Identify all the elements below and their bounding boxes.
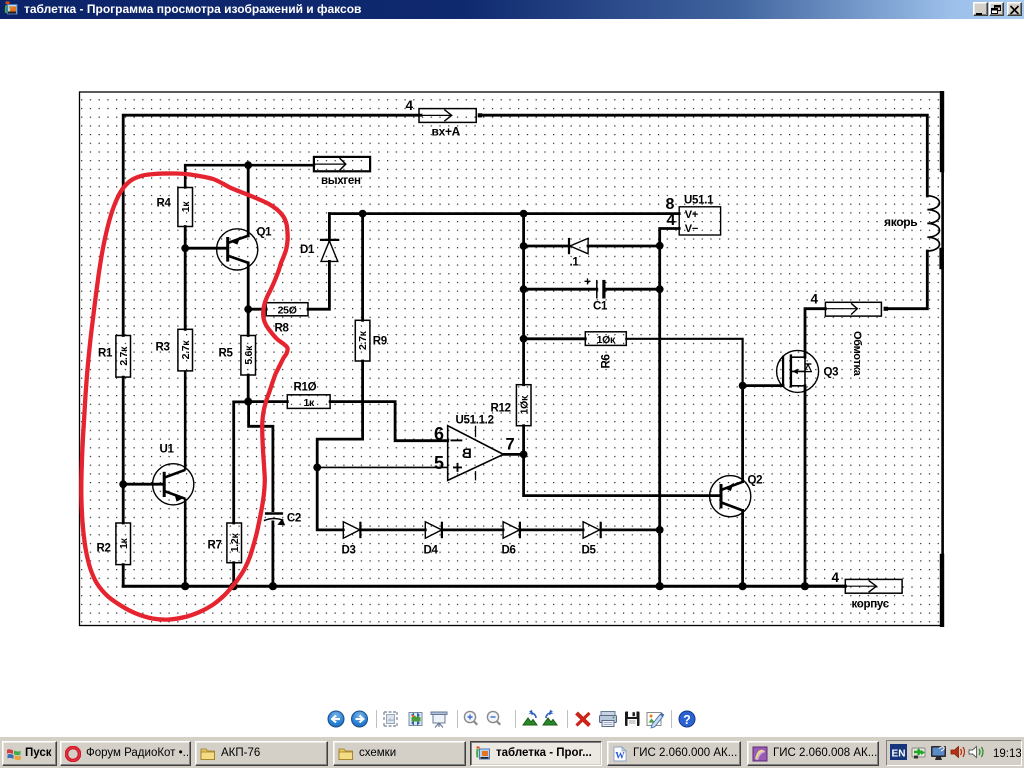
svg-text:R12: R12: [491, 403, 511, 415]
svg-text:D1: D1: [300, 244, 315, 256]
viewer toolbar: [0, 705, 1024, 736]
resistor R12: [491, 385, 532, 426]
transistor Q2: [710, 475, 763, 517]
resistor R8: [266, 303, 308, 335]
svg-text:вх+А: вх+А: [432, 125, 461, 139]
wire op-amp out to R12 node: [503, 453, 523, 456]
svg-text:U51.1.2: U51.1.2: [456, 415, 494, 427]
svg-text:R2: R2: [97, 543, 111, 555]
wire mid rail: [329, 212, 679, 215]
wire R12 top: [522, 339, 525, 385]
junction Q3 gate / Q2 emitter / R6 line: [739, 382, 747, 390]
svg-text:R3: R3: [156, 342, 170, 354]
svg-text:D6: D6: [502, 545, 516, 557]
junction diode .1 right node: [656, 242, 664, 250]
svg-text:4: 4: [667, 212, 676, 229]
wire R1 to R2: [122, 377, 125, 523]
wire rail to корпус: [805, 585, 845, 588]
svg-text:Q2: Q2: [748, 475, 763, 487]
svg-text:R8: R8: [275, 323, 290, 335]
svg-text:1Øк: 1Øк: [518, 395, 530, 414]
slideshow: [431, 712, 447, 728]
svg-text:W: W: [615, 752, 625, 762]
op-amp power block U51.1: [666, 195, 721, 236]
junction V- column / bottom rail: [656, 582, 664, 590]
junction C2 / bottom rail: [269, 582, 277, 590]
wire junction to R5: [247, 309, 250, 335]
svg-text:4: 4: [811, 292, 819, 307]
svg-text:R5: R5: [219, 348, 234, 360]
wire R7 to bottom rail: [232, 563, 235, 587]
junction Q2 collector / bottom rail: [739, 582, 747, 590]
junction R7 / bottom rail: [230, 582, 238, 590]
wire R9 bottom to pin5 node: [317, 361, 362, 467]
svg-text:4: 4: [406, 98, 414, 113]
resistor R9: [355, 320, 387, 361]
wire R12 bottom: [522, 426, 525, 455]
wire Q3 source to rail: [804, 386, 807, 586]
best fit: [384, 712, 397, 726]
svg-text:1к: 1к: [118, 538, 130, 550]
forward button: [352, 711, 368, 727]
zoom out: [487, 711, 500, 724]
wire node to D3: [317, 467, 343, 530]
resistor R3: [156, 329, 193, 371]
svg-text:R6: R6: [601, 354, 613, 368]
wire node to diode anode: [524, 245, 569, 248]
wire R9 top: [361, 214, 364, 321]
wire coil to обмотка connector: [888, 251, 927, 309]
diode D1: [300, 240, 339, 262]
delete: [577, 713, 590, 726]
wire R8 to D1: [308, 261, 329, 309]
wire junction to R7: [234, 402, 249, 523]
connector корпус: [832, 570, 903, 611]
wire D1 to mid rail: [328, 214, 331, 240]
wire bottom rail: [123, 585, 845, 588]
wire node to Q3 gate: [743, 384, 784, 387]
junction diode .1 left node: [520, 242, 528, 250]
rotate ccw: [523, 710, 537, 725]
diode D5: [582, 522, 601, 557]
wire node to C1: [524, 288, 597, 291]
svg-text:Обмотка: Обмотка: [851, 331, 863, 377]
svg-text:2.7к: 2.7к: [180, 340, 192, 360]
actual size: [409, 713, 422, 726]
svg-text:U1: U1: [160, 444, 175, 456]
wire R6 to Q3 gate node: [626, 339, 742, 386]
wire R5 to junction: [247, 375, 250, 402]
wire Q3 drain to обмотка: [805, 309, 825, 358]
rotate cw: [543, 710, 557, 725]
svg-text:C1: C1: [593, 301, 608, 313]
junction R5 / R10 / R7 / C2: [244, 398, 252, 406]
svg-text:R7: R7: [208, 540, 222, 552]
wire Q2 collector to rail: [741, 510, 744, 586]
junction op-amp out / R12 bottom: [520, 451, 528, 459]
svg-text:1Øк: 1Øк: [597, 334, 616, 346]
svg-text:19:13: 19:13: [993, 748, 1021, 760]
svg-text:1к: 1к: [303, 397, 315, 409]
junction Q1 emitter / выхген rail: [244, 161, 252, 169]
connector вх+А: [406, 98, 483, 139]
svg-text:EN: EN: [892, 749, 906, 760]
wire D4 to D6: [442, 529, 503, 532]
wire R2 to bottom rail: [122, 565, 125, 587]
wire R4 bottom to R3 top: [184, 227, 187, 330]
svg-text:V−: V−: [685, 223, 698, 235]
wire D3 to D4: [360, 529, 425, 532]
junction V+ column / mid rail: [520, 210, 528, 218]
svg-text:Q1: Q1: [257, 227, 273, 239]
transistor U1: [153, 371, 194, 586]
wire V- pin hook: [660, 229, 680, 246]
svg-text:?: ?: [683, 713, 691, 727]
svg-text:1к: 1к: [180, 201, 192, 213]
schematic sheet background: [80, 92, 944, 626]
resistor R4: [157, 188, 193, 227]
wire junction to C2: [249, 402, 273, 511]
junction R9 / mid rail: [359, 210, 367, 218]
resistor R6: [585, 332, 626, 369]
svg-text:выхген: выхген: [321, 175, 361, 187]
diode D4: [424, 522, 442, 557]
junction C1 left node: [520, 285, 528, 293]
edit: [647, 713, 664, 728]
svg-text:R9: R9: [373, 336, 387, 348]
title bar: [0, 0, 1024, 19]
svg-text:U51.1: U51.1: [684, 195, 714, 207]
svg-text:4: 4: [832, 570, 840, 585]
resistor R7: [208, 523, 242, 563]
inductor якорь: [927, 196, 939, 251]
wire node to Q2 base: [524, 454, 720, 495]
wire V- column down: [658, 246, 661, 587]
wire top rail: [123, 115, 421, 335]
svg-text:2.7к: 2.7к: [118, 346, 130, 366]
svg-text:R1: R1: [98, 348, 113, 360]
wire D6 to D5: [520, 529, 583, 532]
svg-text:D3: D3: [342, 545, 356, 557]
transistor Q3 (mosfet): [777, 350, 839, 392]
svg-text:B: B: [462, 446, 472, 461]
svg-text:D4: D4: [424, 545, 439, 557]
taskbar: [0, 736, 1024, 768]
svg-text:C2: C2: [287, 513, 301, 525]
wire R4 top to выхген rail: [185, 165, 314, 187]
wire V+ column: [522, 214, 525, 339]
svg-text:25Ø: 25Ø: [278, 305, 297, 317]
svg-text:5.6к: 5.6к: [243, 345, 255, 365]
svg-text:.1: .1: [570, 257, 580, 269]
svg-text:7: 7: [506, 436, 515, 454]
schematic SVG: [0, 91, 1024, 627]
wire C1 to V- column: [605, 288, 660, 291]
resistor R2: [97, 523, 131, 565]
wire node to R6: [524, 337, 586, 340]
back button: [328, 711, 344, 727]
junction pin5 node: [313, 464, 321, 472]
zoom in: [464, 711, 477, 724]
transistor Q1: [185, 227, 272, 271]
junction R6 left node / R12 top: [520, 335, 528, 343]
junction Q1 base / R4-R3: [181, 244, 189, 252]
resistor R1: [98, 336, 131, 378]
wire node to Q2 emitter: [741, 386, 744, 482]
svg-text:+: +: [584, 275, 591, 289]
svg-text:D5: D5: [582, 545, 597, 557]
svg-text:1.2к: 1.2к: [229, 533, 241, 553]
junction U1 base / R1-R2: [119, 480, 127, 488]
wire junction to R8: [248, 308, 266, 311]
svg-text:Q3: Q3: [824, 367, 839, 379]
save: [625, 712, 640, 727]
wire D5 to node: [601, 529, 660, 532]
connector выхген: [314, 157, 370, 187]
help: [679, 711, 695, 727]
svg-text:R4: R4: [157, 198, 172, 210]
right border bar: [941, 93, 944, 625]
svg-text:корпус: корпус: [852, 599, 890, 611]
resistor R5: [219, 336, 256, 376]
capacitor C2: [264, 513, 301, 526]
wire top rail right part: [482, 115, 927, 196]
junction Q1 collector / R8 / R5: [244, 305, 252, 313]
resistor R10: [287, 382, 330, 410]
wire Q1 collector down: [247, 263, 250, 309]
junction C1 right node: [656, 285, 664, 293]
op-amp U51.1.2: [434, 415, 515, 481]
connector Обмотка: [811, 292, 889, 377]
red hand-drawn loop: [81, 173, 287, 619]
wire pin 5: [317, 466, 448, 468]
capacitor C1: [584, 275, 608, 313]
junction D5 / V- column: [656, 526, 664, 534]
svg-text:V+: V+: [685, 209, 698, 221]
svg-text:якорь: якорь: [884, 215, 917, 229]
print: [600, 712, 617, 727]
svg-text:6: 6: [434, 424, 444, 444]
diode D6: [502, 522, 520, 557]
svg-text:8: 8: [666, 196, 675, 213]
wire C2 to bottom rail: [271, 522, 274, 586]
junction U1 emitter / bottom rail: [181, 582, 189, 590]
wire R10 to pin 6: [330, 402, 448, 441]
wire diode to V- column: [588, 245, 660, 248]
junction Q3 source / bottom rail: [801, 582, 809, 590]
diode D3: [342, 522, 361, 557]
diode .1: [569, 238, 588, 269]
svg-text:5: 5: [434, 453, 444, 473]
svg-text:2.7к: 2.7к: [357, 330, 369, 350]
svg-text:R1Ø: R1Ø: [294, 382, 317, 394]
wire Q1 emitter up: [247, 165, 250, 236]
wire junction to R10: [248, 400, 287, 403]
wire U1 base: [123, 483, 164, 486]
